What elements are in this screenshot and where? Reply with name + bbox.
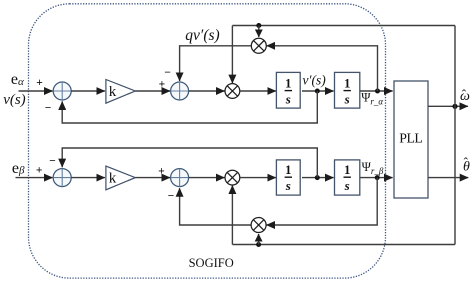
amplifier gain k (alpha) (106, 80, 135, 104)
wire integrator I2a to PLL (360, 90, 393, 92)
svg-text:1: 1 (285, 163, 291, 177)
wire e_alpha input to summer S1a (19, 90, 53, 92)
wire summer S2a to multiplier M1a (189, 90, 225, 92)
summing junction S1b (53, 169, 71, 187)
wire omega hat vertical feedback (454, 26, 456, 245)
svg-text:v′(s): v′(s) (303, 73, 327, 88)
svg-text:Ψr_α: Ψr_α (361, 91, 383, 107)
svg-text:qv′(s): qv′(s) (185, 27, 219, 44)
wire Psi_r_beta feedback down to multiplier M2b (266, 178, 377, 225)
wire amplifier K1 to summer S2a (135, 90, 170, 92)
wire PLL to omega hat output (428, 105, 468, 107)
wire multiplier M1b to integrator I1b (240, 177, 276, 179)
svg-text:ˆ: ˆ (462, 87, 467, 102)
node junction Psi_r_alpha (375, 89, 380, 94)
svg-text:−: − (49, 156, 56, 168)
svg-text:1: 1 (344, 163, 350, 177)
svg-text:s: s (344, 91, 350, 106)
wire v' alpha feedback to summer S1a bottom (62, 91, 317, 123)
node junction Psi_r_beta (375, 175, 380, 180)
wire amplifier K2 to summer S2b (135, 177, 170, 179)
integrator block I2b 1/s (335, 160, 360, 195)
wire junction up into multiplier M2b (258, 234, 260, 245)
summing junction S2a (171, 82, 189, 100)
wire qv' from multiplier M2a down into summer S2a (180, 46, 252, 81)
summing junction S1a (53, 82, 71, 100)
wire integrator I1a to integrator I2a (302, 90, 334, 92)
svg-text:SOGIFO: SOGIFO (189, 256, 234, 270)
wire summer S1b to amplifier K2 (71, 177, 105, 179)
wire v' beta feedback to summer S1b top (62, 148, 317, 178)
amplifier gain k (beta) (106, 166, 135, 190)
block PLL (394, 81, 428, 198)
svg-text:s: s (344, 178, 350, 193)
node junction on bottom omega run (256, 242, 261, 247)
multiplier M1b (225, 170, 240, 185)
svg-text:ˆ: ˆ (464, 155, 469, 170)
svg-text:eβ: eβ (12, 160, 25, 177)
svg-text:k: k (109, 84, 117, 100)
summing junction S2b (171, 169, 189, 187)
wire e_beta input to summer S1b (16, 177, 53, 179)
wire Psi_r_alpha feedback up to multiplier M2a (267, 46, 378, 91)
wire summer S1a to amplifier K1 (71, 90, 105, 92)
svg-text:PLL: PLL (399, 131, 422, 146)
svg-text:−: − (164, 67, 171, 79)
svg-text:1: 1 (344, 76, 350, 90)
svg-text:k: k (109, 171, 117, 187)
svg-text:s: s (285, 178, 291, 193)
wire omega feedback down into multiplier M1a (231, 26, 233, 84)
svg-text:Ψr_β: Ψr_β (362, 160, 384, 176)
svg-text:+: + (36, 77, 43, 89)
integrator block I1a 1/s (276, 72, 300, 108)
wire qv' beta from multiplier M2b up into summer S2b (180, 188, 252, 225)
wire integrator I2b to PLL (360, 177, 393, 179)
integrator block I1b 1/s (276, 160, 300, 195)
svg-text:1: 1 (285, 76, 291, 90)
wire PLL to theta hat output (428, 177, 468, 179)
svg-text:s: s (285, 91, 291, 106)
svg-text:+: + (158, 165, 165, 177)
node junction v' alpha (315, 89, 320, 94)
svg-text:+: + (159, 79, 166, 91)
svg-text:+: + (36, 165, 43, 177)
multiplier M2a (top) (251, 38, 266, 53)
wire summer S2b to multiplier M1b (189, 177, 225, 179)
wire omega feedback bottom run (232, 244, 455, 246)
wire multiplier M1a to integrator I1a (240, 90, 276, 92)
node junction omega hat (452, 104, 457, 109)
node junction on top omega run (256, 23, 261, 28)
wire integrator I1b to integrator I2b (302, 177, 334, 179)
multiplier M2b (bottom) (251, 218, 266, 233)
svg-text:−: − (45, 102, 52, 114)
svg-text:v(s): v(s) (3, 92, 26, 108)
multiplier M1a (225, 84, 240, 99)
wire omega feedback up into multiplier M1b (231, 185, 233, 244)
integrator block I2a 1/s (335, 72, 360, 108)
svg-text:eα: eα (11, 71, 24, 88)
SOGIFO dashed boundary box (29, 4, 386, 278)
node junction v' beta (315, 175, 320, 180)
svg-text:−: − (168, 190, 175, 202)
wire junction down into multiplier M2a (258, 26, 260, 38)
wire omega feedback top run (232, 25, 455, 27)
